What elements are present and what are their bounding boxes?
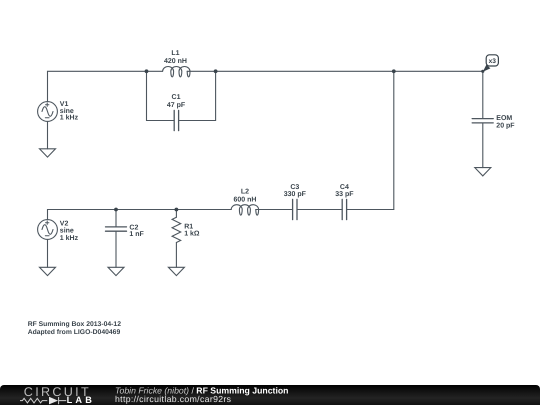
junction (mid link top) (392, 69, 396, 73)
ground (EOM) (475, 168, 491, 176)
svg-text:http://circuitlab.com/car92rs: http://circuitlab.com/car92rs (115, 394, 232, 404)
inductor L1 (163, 67, 190, 77)
capacitor EOM (472, 118, 493, 120)
wire R1 top lead (175, 210, 177, 218)
capacitor C2 (106, 226, 127, 228)
node x3 flag (483, 55, 499, 72)
inductor L2 (231, 205, 258, 215)
wire V1 to ground (47, 121, 49, 148)
wire top rail right: L1 to x3 corner (216, 70, 483, 72)
footer credit line (115, 386, 288, 405)
wire R1 to ground (175, 243, 177, 268)
wire C3 to C4 (297, 209, 342, 211)
ground (V1) (40, 149, 56, 157)
wire C2 top lead (115, 210, 117, 227)
wire L2 to C3 (256, 209, 293, 211)
wire top rail left: V1 top to L1 left junction (48, 71, 147, 101)
svg-text:LAB: LAB (67, 395, 95, 405)
junction (R1 top) (175, 208, 179, 212)
wire L1 left lead (147, 70, 163, 72)
capacitor C3 (292, 199, 294, 219)
wire C4 to mid link (347, 209, 394, 211)
wire x3 drop to EOM (482, 71, 484, 118)
wire V2 to ground (47, 239, 49, 267)
wire vertical mid link (393, 71, 395, 209)
wire C1 branch right rise (179, 71, 216, 120)
footer bar (0, 385, 540, 405)
wire C2 to ground (115, 231, 117, 267)
CircuitLab logo (20, 385, 95, 405)
ground (C2) (108, 267, 124, 275)
junction (L1 left) (145, 69, 149, 73)
junction (x3 corner) (481, 70, 484, 73)
resistor R1 (172, 217, 181, 242)
wire C1 branch left drop (147, 71, 175, 120)
ground (V2) (40, 267, 56, 275)
wire bottom rail (48, 210, 232, 220)
voltage source V2 (38, 220, 58, 240)
capacitor C1 (173, 110, 175, 130)
wire L1 right lead (187, 70, 215, 72)
ground (R1) (168, 267, 184, 275)
junction (L1 right) (214, 69, 218, 73)
junction (C2 top) (114, 208, 118, 212)
voltage source V1 (38, 102, 58, 122)
capacitor C4 (341, 199, 343, 219)
wire EOM to ground (482, 123, 484, 168)
